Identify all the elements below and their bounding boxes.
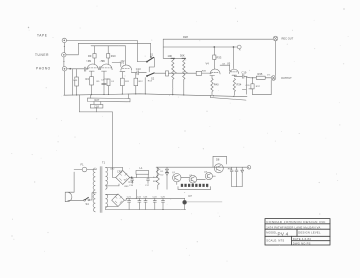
svg-text:CR1: CR1 [117, 170, 123, 174]
svg-text:S4: S4 [86, 202, 90, 206]
svg-text:50K: 50K [180, 54, 185, 58]
svg-text:R33: R33 [217, 55, 222, 59]
svg-text:DESIGN LEVEL: DESIGN LEVEL [298, 230, 321, 234]
svg-text:+150: +150 [100, 61, 106, 63]
svg-text:C18: C18 [94, 104, 99, 108]
svg-text:V5: V5 [227, 61, 231, 65]
svg-text:C13: C13 [136, 67, 141, 71]
svg-text:CONRAD JOHNSON DESIGN INC: CONRAD JOHNSON DESIGN INC [266, 220, 326, 224]
svg-text:PHONO: PHONO [36, 67, 51, 71]
svg-text:10K: 10K [168, 54, 173, 58]
svg-text:D8: D8 [216, 158, 220, 162]
svg-text:D7: D7 [189, 194, 193, 198]
svg-text:C16: C16 [129, 180, 134, 184]
svg-text:TAPE: TAPE [37, 33, 48, 37]
svg-text:CR3: CR3 [124, 186, 129, 188]
svg-text:R34: R34 [237, 83, 242, 87]
svg-text:S1: S1 [150, 52, 154, 56]
svg-text:PV 4: PV 4 [278, 231, 289, 236]
svg-text:R35: R35 [258, 72, 263, 76]
svg-text:R27: R27 [95, 98, 100, 102]
svg-text:MODEL: MODEL [266, 231, 277, 235]
svg-text:R40: R40 [214, 83, 219, 87]
svg-text:CR2: CR2 [110, 169, 115, 171]
svg-text:R28: R28 [183, 35, 188, 39]
svg-text:R10: R10 [111, 54, 116, 58]
svg-text:SCALE: NTS: SCALE: NTS [266, 239, 284, 243]
svg-text:C19: C19 [242, 70, 247, 74]
svg-text:V4: V4 [206, 61, 210, 65]
svg-text:+150: +150 [120, 60, 126, 62]
svg-text:1474 PATHFINDER LANE McLEAN VA: 1474 PATHFINDER LANE McLEAN VA [266, 225, 320, 229]
svg-text:TUNER: TUNER [35, 53, 49, 57]
svg-text:REC OUT: REC OUT [282, 37, 294, 41]
svg-text:DATE 4-6-84: DATE 4-6-84 [293, 237, 311, 241]
svg-text:DWG NO PS: DWG NO PS [293, 241, 311, 245]
svg-text:1%: 1% [267, 75, 270, 77]
svg-text:OUTPUT: OUTPUT [281, 76, 292, 80]
svg-text:R4: R4 [86, 77, 90, 81]
svg-text:R9: R9 [88, 54, 92, 58]
